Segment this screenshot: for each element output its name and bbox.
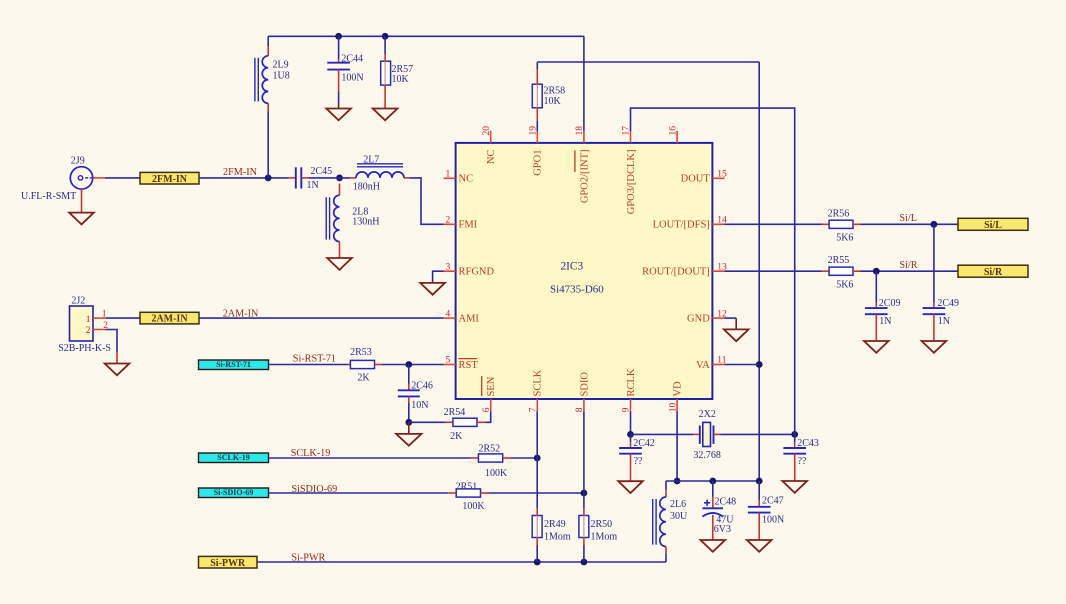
- connector 2J9 U.FL-R-SMT: [70, 167, 92, 189]
- wire 2L9 vertical: [267, 36, 269, 46]
- wire Si-RST to 2R53: [269, 364, 349, 366]
- ground at pin 12: [724, 329, 749, 341]
- resistor 2R52 100K: [471, 457, 479, 459]
- svg-text:GPO1: GPO1: [533, 150, 544, 176]
- svg-text:2: 2: [86, 326, 91, 336]
- svg-text:2R52: 2R52: [479, 444, 501, 455]
- svg-text:5: 5: [446, 356, 451, 366]
- wire SCLK row: [269, 457, 471, 459]
- wire 2R53 to pin 5 RST: [382, 364, 444, 366]
- 2J9 ground lead: [81, 189, 83, 213]
- junction at 2L8 top: [336, 175, 343, 182]
- svg-text:2C44: 2C44: [341, 53, 363, 64]
- svg-text:2X2: 2X2: [699, 409, 716, 420]
- wire 2R51 to pin8 line: [488, 492, 584, 494]
- wire 2L7 to pin 2 FMI: [410, 178, 444, 224]
- ground at 2C48: [701, 540, 726, 552]
- IC top pin stubs 20-16: [490, 131, 492, 143]
- port Si-PWR: [199, 556, 258, 568]
- resistor 2R56 5K6: [822, 223, 830, 225]
- svg-text:5K6: 5K6: [836, 279, 853, 290]
- IC left pin stubs 1-5: [444, 177, 456, 179]
- wire SDIO row: [269, 492, 449, 494]
- svg-text:130nH: 130nH: [352, 216, 379, 227]
- svg-text:Si-RST-71: Si-RST-71: [216, 360, 251, 369]
- junction SCLK/pin7: [534, 455, 541, 462]
- svg-text:2C09: 2C09: [879, 298, 901, 309]
- svg-text:2C45: 2C45: [311, 166, 333, 177]
- svg-text:2R58: 2R58: [544, 86, 566, 97]
- resistor 2R55 5K6: [822, 270, 830, 272]
- svg-text:20: 20: [482, 126, 492, 136]
- wire pin 13 ROUT row: [724, 270, 821, 272]
- svg-text:Si/L: Si/L: [899, 213, 917, 224]
- wire pin 12 GND to ground: [724, 317, 736, 319]
- svg-text:DOUT: DOUT: [681, 174, 711, 185]
- junction VA: [756, 361, 763, 368]
- svg-text:LOUT/[DFS]: LOUT/[DFS]: [653, 220, 710, 231]
- svg-text:2C46: 2C46: [411, 381, 433, 392]
- svg-text:2J9: 2J9: [71, 155, 85, 166]
- IC 2IC3 Si4735-D60 body: [456, 143, 713, 399]
- svg-text:2K: 2K: [450, 431, 463, 442]
- svg-text:10: 10: [668, 403, 678, 413]
- svg-text:Si4735-D60: Si4735-D60: [550, 284, 604, 296]
- ground at 2R57: [373, 109, 398, 121]
- svg-text:1: 1: [86, 315, 91, 325]
- svg-text:10K: 10K: [392, 74, 410, 85]
- resistor 2R54 2K: [445, 421, 453, 423]
- svg-text:2C47: 2C47: [762, 496, 784, 507]
- ground at 2C42: [618, 481, 643, 493]
- resistor 2R53 2K: [348, 364, 350, 366]
- svg-text:100K: 100K: [485, 468, 508, 479]
- wire pin 7 vertical: [536, 412, 538, 509]
- svg-text:2C43: 2C43: [797, 438, 819, 449]
- connector 2J2 S2B-PH-K-S: [70, 306, 94, 341]
- ground at 2L8: [327, 258, 352, 270]
- junction crystal right / DCLK line: [791, 431, 798, 438]
- IC right pin stubs 15-11: [712, 177, 724, 179]
- svg-text:2K: 2K: [357, 372, 370, 383]
- wire 2J2 pin2 to ground: [106, 330, 117, 353]
- sheet entry Si-RST-71: [199, 360, 269, 370]
- resistor 2R50 1Mom: [579, 516, 589, 538]
- svg-text:2FM-IN: 2FM-IN: [152, 174, 188, 185]
- wire Si-PWR rail: [257, 561, 666, 563]
- svg-text:5K6: 5K6: [836, 232, 853, 243]
- wire 2R50 to rail: [583, 545, 585, 562]
- svg-text:2R49: 2R49: [544, 519, 566, 530]
- svg-text:2R54: 2R54: [444, 407, 466, 418]
- capacitor 2C44 100N: [338, 59, 340, 63]
- resistor 2R58 10K: [536, 62, 538, 69]
- wire top bus down to pin 18: [583, 36, 585, 131]
- capacitor 2C46 10N: [408, 384, 410, 390]
- svg-text:SDIO: SDIO: [579, 372, 590, 397]
- port Si/L: [958, 218, 1028, 230]
- wire crystal right: [721, 433, 795, 435]
- svg-text:16: 16: [668, 126, 678, 136]
- junction crystal left: [627, 431, 634, 438]
- svg-text:2L9: 2L9: [273, 60, 289, 71]
- junction SDIO/pin8: [581, 490, 588, 497]
- capacitor 2C49 1N: [933, 224, 935, 302]
- svg-text:1N: 1N: [307, 180, 319, 191]
- svg-text:Si/L: Si/L: [984, 220, 1002, 231]
- ground lead: [408, 422, 410, 434]
- wire junction to 2R54: [409, 421, 446, 423]
- svg-text:2: 2: [446, 216, 451, 226]
- wire 2R57 top: [384, 36, 386, 54]
- svg-text:AMI: AMI: [459, 314, 480, 325]
- wire 2R52 to pin7 line: [511, 457, 538, 459]
- ground below 2C46: [396, 434, 421, 446]
- ground at 2C09: [864, 341, 889, 353]
- junction at ground/2R54: [405, 419, 412, 426]
- junction rail/2R50: [581, 559, 588, 566]
- svg-text:1Mom: 1Mom: [591, 531, 618, 542]
- svg-text:2L6: 2L6: [670, 499, 686, 510]
- svg-text:100N: 100N: [341, 73, 363, 84]
- 2J2 pin stubs: [93, 317, 106, 319]
- wire pin 8 vertical: [583, 412, 585, 509]
- resistor 2R51 100K: [448, 492, 456, 494]
- ground at 2J9: [69, 213, 94, 225]
- svg-text:100N: 100N: [762, 515, 784, 526]
- svg-text:??: ??: [798, 456, 807, 467]
- capacitor 2C09 1N: [875, 271, 877, 302]
- svg-text:RCLK: RCLK: [626, 368, 637, 396]
- port Si/R: [958, 265, 1028, 277]
- wire 2R49 to rail: [536, 545, 538, 562]
- wire crystal left: [631, 433, 694, 435]
- wire 2R58 top rail y62: [537, 61, 759, 63]
- svg-text:2C42: 2C42: [633, 438, 655, 449]
- junction rail/2R49: [534, 559, 541, 566]
- capacitor 2C42 ??: [630, 434, 632, 442]
- svg-text:2J2: 2J2: [71, 295, 85, 306]
- svg-text:GPO3/[DCLK]: GPO3/[DCLK]: [626, 150, 637, 215]
- wire port to 2C45: [199, 177, 289, 179]
- svg-text:NC: NC: [459, 174, 474, 185]
- svg-text:1N: 1N: [879, 316, 891, 327]
- junction at 2L9 bottom: [265, 175, 272, 182]
- svg-text:180nH: 180nH: [353, 182, 380, 193]
- svg-text:32.768: 32.768: [693, 450, 721, 461]
- IC bottom pin stubs 6-10: [490, 399, 492, 412]
- wire 2C46 to junction: [408, 403, 410, 422]
- svg-text:SEN: SEN: [486, 376, 497, 396]
- wire pin 9 RCLK down: [630, 412, 632, 435]
- svg-text:U.FL-R-SMT: U.FL-R-SMT: [21, 191, 76, 202]
- svg-text:FMI: FMI: [459, 220, 478, 231]
- wire 2C44 top: [338, 36, 340, 59]
- svg-text:2R55: 2R55: [828, 255, 850, 266]
- wire 2J9 to port: [105, 177, 140, 179]
- inductor 2L9 leads: [267, 46, 269, 56]
- wire top bus: [268, 35, 584, 37]
- port 2FM-IN: [140, 172, 199, 184]
- ground at 2C47: [747, 540, 772, 552]
- ground at 2C49: [922, 341, 947, 353]
- wire 2AM-IN to pin 4 AMI: [199, 317, 444, 319]
- capacitor 2C43 ??: [794, 434, 796, 442]
- svg-text:2R57: 2R57: [392, 64, 414, 75]
- svg-text:Si/R: Si/R: [984, 267, 1003, 278]
- svg-text:NC: NC: [486, 150, 497, 165]
- svg-text:Si/R: Si/R: [899, 260, 917, 271]
- svg-text:RST: RST: [459, 360, 479, 371]
- svg-text:2AM-IN: 2AM-IN: [151, 314, 188, 325]
- junction Si/R: [873, 268, 880, 275]
- ground at 2J2: [105, 364, 130, 376]
- svg-text:10K: 10K: [544, 96, 562, 107]
- capacitor 2C48 47U 6V3 (polarized): [709, 478, 716, 485]
- capacitor 2C45 1N: [289, 177, 296, 179]
- junction at 2C46 top: [405, 361, 412, 368]
- inductor 2L7 180nH: [350, 177, 357, 179]
- svg-text:RFGND: RFGND: [459, 267, 495, 278]
- svg-text:Si-SDIO-69: Si-SDIO-69: [214, 488, 254, 497]
- sheet entry SCLK-19: [199, 453, 269, 463]
- port 2AM-IN: [140, 312, 199, 324]
- svg-text:2R56: 2R56: [828, 208, 850, 219]
- junction VD rail: [674, 478, 681, 485]
- resistor 2R49 1Mom: [532, 516, 542, 538]
- svg-text:S2B-PH-K-S: S2B-PH-K-S: [58, 343, 111, 354]
- wire pin 11 VA stub to junction: [724, 364, 759, 366]
- svg-text:VA: VA: [696, 360, 710, 371]
- resistor 2R57 10K: [381, 61, 391, 85]
- svg-text:2R53: 2R53: [350, 347, 372, 358]
- wire 2R54 to pin 6 SEN: [486, 412, 491, 423]
- inductor 2L9 1U8: [262, 56, 268, 104]
- wire 2J2 pin1 to port: [106, 317, 140, 319]
- wire 2R55 to Si/R port: [861, 270, 959, 272]
- wire pin 10 VD down: [676, 412, 678, 482]
- svg-text:GND: GND: [687, 314, 710, 325]
- svg-text:2L7: 2L7: [363, 155, 379, 166]
- svg-text:Si-RST-71: Si-RST-71: [293, 354, 336, 365]
- svg-text:30U: 30U: [670, 511, 688, 522]
- svg-text:1U8: 1U8: [273, 71, 290, 82]
- svg-text:6V3: 6V3: [714, 524, 731, 535]
- svg-text:1N: 1N: [938, 316, 950, 327]
- ground at 2C44: [326, 109, 351, 121]
- svg-text:1Mom: 1Mom: [544, 531, 571, 542]
- svg-text:??: ??: [634, 456, 643, 467]
- inductor 2L8 130nH: [339, 184, 341, 196]
- svg-text:2IC3: 2IC3: [561, 261, 584, 273]
- wire 2R56 to Si/L port: [861, 223, 959, 225]
- ground at 2C43: [782, 481, 807, 493]
- wire VA vertical x759: [758, 62, 760, 481]
- inductor 2L6 30U: [665, 481, 667, 490]
- svg-text:2R51: 2R51: [456, 481, 478, 492]
- wire pin 14 LOUT row: [724, 223, 821, 225]
- svg-text:15: 15: [717, 170, 727, 180]
- svg-text:Si-PWR: Si-PWR: [210, 558, 246, 569]
- ground at RFGND: [420, 283, 445, 295]
- svg-text:2FM-IN: 2FM-IN: [223, 167, 258, 178]
- svg-text:3: 3: [446, 262, 451, 272]
- svg-text:SCLK: SCLK: [533, 369, 544, 396]
- power rail y481: [666, 480, 759, 482]
- svg-text:SCLK-19: SCLK-19: [217, 453, 249, 462]
- svg-text:VD: VD: [673, 381, 684, 397]
- svg-text:100K: 100K: [462, 501, 485, 512]
- capacitor 2C47 100N: [756, 478, 763, 485]
- junction 2C44 top: [335, 33, 342, 40]
- svg-text:1: 1: [446, 170, 451, 180]
- svg-text:2R50: 2R50: [591, 519, 613, 530]
- svg-text:10N: 10N: [411, 400, 428, 411]
- crystal 2X2 32.768: [693, 433, 700, 435]
- wire 2C45 to 2L7: [309, 177, 350, 179]
- wire pin 3 RFGND to ground: [433, 271, 444, 283]
- wire down to 2C46: [408, 365, 410, 385]
- svg-text:4: 4: [446, 309, 451, 319]
- svg-text:2C49: 2C49: [937, 298, 959, 309]
- 2J9 pin stub: [93, 177, 105, 179]
- svg-text:ROUT/[DOUT]: ROUT/[DOUT]: [642, 267, 710, 278]
- svg-text:2C48: 2C48: [715, 497, 737, 508]
- sheet entry Si-SDIO-69: [199, 488, 269, 498]
- junction Si/L: [931, 221, 938, 228]
- svg-text:GPO2/[INT]: GPO2/[INT]: [579, 150, 590, 204]
- wire pin 17 GPO3 route: [631, 108, 795, 434]
- junction 2R57 top: [382, 33, 389, 40]
